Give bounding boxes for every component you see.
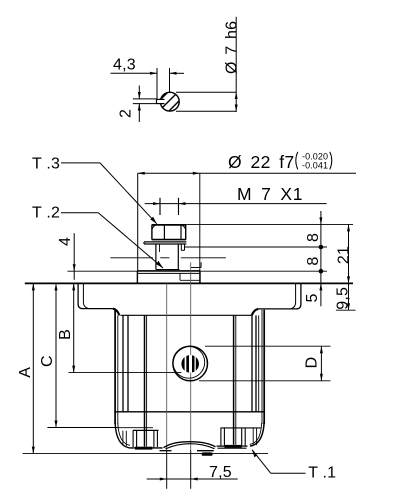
hex nut: [152, 225, 187, 240]
svg-text:7,5: 7,5: [209, 464, 232, 481]
shaft tangent extension lines: [176, 91, 236, 93]
left foot top line: [118, 427, 154, 429]
shaft hatching: [150, 85, 195, 130]
svg-text:T .2: T .2: [32, 205, 60, 222]
right ear: [252, 283, 301, 315]
svg-text:5: 5: [304, 293, 321, 302]
thin centerline left gear axis: [166, 283, 168, 450]
dimension 4: [57, 233, 76, 280]
svg-text:T .1: T .1: [308, 465, 336, 482]
washer under nut: [144, 242, 186, 244]
label T.3: [32, 155, 157, 223]
svg-text:Ø 22 f7: Ø 22 f7: [228, 152, 295, 172]
svg-text:D: D: [304, 357, 321, 369]
boss top extension line: [67, 270, 327, 272]
right foot inner contour: [250, 423, 262, 444]
body bottom line: [114, 411, 265, 413]
svg-text:M 7 X1: M 7 X1: [237, 184, 303, 204]
right foot top line: [221, 427, 261, 429]
svg-text:A: A: [17, 367, 34, 378]
svg-text:8: 8: [305, 233, 322, 242]
dimension 4,3: [111, 57, 185, 101]
left plug: [133, 430, 158, 449]
left foot outer: [115, 423, 162, 448]
svg-text:2: 2: [118, 109, 135, 118]
right plug: [221, 428, 245, 448]
extension line 9.5 bottom: [336, 309, 356, 311]
left inner short verticals: [122, 431, 124, 446]
shaft below washer: [156, 244, 180, 270]
svg-text:B: B: [57, 329, 74, 340]
dim B: [57, 283, 181, 372]
flange top line: [25, 282, 353, 284]
thin centerline bore axis: [190, 262, 192, 450]
dimension 2: [118, 86, 158, 123]
svg-text:Ø 7 h6: Ø 7 h6: [224, 21, 241, 74]
left ear: [78, 283, 119, 315]
dim line 21 / 9,5: [334, 224, 352, 310]
right inner short verticals: [252, 429, 254, 445]
dim A: [17, 283, 35, 453]
bottom long thin line: [23, 453, 268, 455]
small box above boss right: [191, 262, 201, 267]
svg-text:4,3: 4,3: [113, 57, 136, 74]
svg-text:-0.041: -0.041: [302, 161, 328, 171]
dimension dia 7 h6: [224, 17, 241, 112]
svg-text:4: 4: [57, 237, 74, 246]
svg-text:C: C: [39, 355, 56, 367]
shaft circle: [160, 92, 179, 111]
right foot outer: [250, 421, 264, 446]
small lug under hill: [202, 452, 213, 455]
svg-text:8: 8: [305, 256, 322, 265]
dim C: [39, 283, 118, 427]
label T.2: [32, 205, 163, 268]
svg-text:21: 21: [335, 246, 352, 264]
hidden reference line y=247: [185, 246, 327, 248]
hill base lines: [160, 450, 172, 452]
keyway slot: [157, 99, 165, 103]
svg-text:T .3: T .3: [32, 155, 60, 172]
shaft end dark disk: [181, 355, 199, 373]
body top face line: [121, 314, 252, 316]
tab right of washer: [181, 244, 184, 250]
extension line nut top: [186, 223, 353, 225]
middle raised hill: [164, 442, 216, 448]
stepped line y=257.8: [110, 257, 226, 259]
svg-text:9,5: 9,5: [334, 287, 351, 310]
chain dim line 8/8/5: [304, 211, 323, 306]
right foot bottom: [217, 445, 248, 447]
boss plate: [137, 271, 200, 284]
left foot inner contour: [118, 423, 130, 445]
